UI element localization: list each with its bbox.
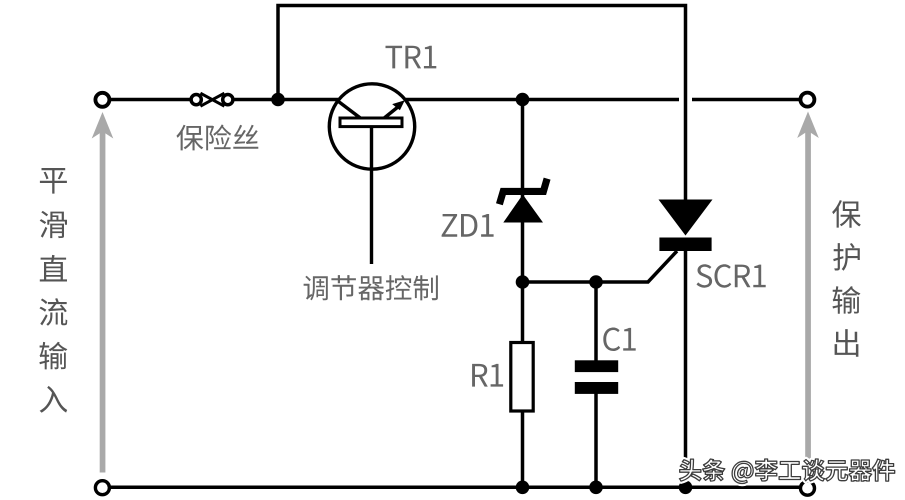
junction A (fuse/TR1/bypass): [271, 93, 285, 107]
label C1: [603, 328, 635, 352]
input terminal bottom left: [95, 481, 109, 495]
wire: bottom rail: [110, 486, 800, 490]
label protected output 保护输出 (vertical): [832, 200, 861, 357]
output flow arrow (right, gray, pointing up): [797, 112, 819, 464]
wire: fuse to junction A: [234, 98, 278, 102]
thyristor SCR1: [659, 200, 713, 252]
label ZD1: [442, 214, 494, 237]
zener diode ZD1: [499, 179, 547, 223]
label TR1: [386, 46, 437, 69]
label smooth DC input 平滑直流输入 (vertical): [39, 168, 67, 413]
junction E (R1/bottom rail): [516, 481, 530, 495]
junction D (gate wire/C1): [589, 275, 603, 289]
wire: node C horizontal to SCR1 gate with diagonal rise: [523, 251, 678, 282]
wire: top bypass from junction A up, across, down to SCR1 anode: [278, 6, 686, 201]
junction B (rail/ZD1): [516, 93, 530, 107]
wire: R1 bottom to bottom rail: [521, 411, 525, 487]
wire: C1 bottom plate to bottom rail: [594, 393, 598, 487]
wire: ZD1 anode down to node C: [521, 223, 525, 283]
label SCR1: [697, 264, 766, 288]
label fuse 保险丝: [176, 125, 258, 151]
output terminal bottom right: [801, 481, 815, 495]
input flow arrow (left, gray, pointing up): [92, 112, 114, 473]
transistor TR1: [329, 84, 414, 264]
input terminal top left: [95, 93, 109, 107]
wire: junction A to TR1 collector (rail into transistor circle): [278, 98, 338, 102]
label R1: [472, 364, 503, 387]
wire: zener cathode gap stub: [521, 190, 525, 200]
junction F (C1/bottom rail): [589, 481, 603, 495]
label regulator control 调节器控制: [304, 275, 438, 300]
resistor R1: [511, 343, 533, 412]
watermark 头条@李工谈元器件: [679, 459, 894, 484]
wire: top rail input terminal to fuse: [110, 98, 190, 102]
wire: ZD1 branch from rail junction B down to zener: [521, 100, 525, 191]
wire: node C down to R1 top: [521, 282, 525, 344]
junction G (SCR1/bottom rail): [679, 481, 693, 495]
wire: crossover gap to output terminal: [692, 98, 800, 102]
junction C (ZD1/R1/gate): [516, 275, 530, 289]
wire: TR1 emitter side rail to crossover gap: [406, 98, 679, 102]
wire: SCR1 cathode down to bottom rail: [684, 250, 688, 487]
fuse F1 (bowtie element): [191, 93, 233, 106]
wire: node D down to C1 top plate: [594, 282, 598, 361]
output terminal top right: [800, 93, 814, 107]
capacitor C1: [575, 360, 618, 394]
